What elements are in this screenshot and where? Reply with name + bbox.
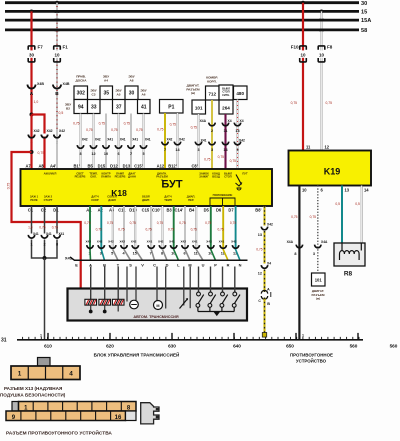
svg-text:0,5: 0,5 (59, 111, 64, 115)
reference box 101 (lower, engine connector) (312, 273, 326, 286)
node: junction bus 30 / F1 wire (55, 1, 59, 5)
wire: red X42-1 down to K18 pin A8 (43, 137, 45, 170)
svg-text:ДАНН: ДАНН (128, 175, 136, 179)
wire from reference box column to K18 (x=131) (130, 114, 132, 170)
svg-text:1,0: 1,0 (34, 100, 39, 104)
svg-text:А6: А6 (142, 92, 146, 96)
svg-text:B8': B8' (255, 207, 261, 212)
svg-text:94: 94 (78, 104, 84, 110)
svg-text:11: 11 (306, 145, 311, 150)
svg-text:30: 30 (361, 1, 367, 7)
svg-text:X42: X42 (59, 129, 65, 133)
connector X13 body (11, 366, 80, 380)
svg-text:X41: X41 (145, 138, 151, 142)
wire: black K19 pin10 to ground via X4A pin 8 (298, 186, 300, 340)
svg-text:0,75: 0,75 (256, 248, 262, 252)
wire from reference box column to K18 (x=118.5) (118, 114, 120, 170)
switch common bus (198, 311, 234, 313)
svg-text:X4A: X4A (200, 119, 207, 123)
svg-text:C: C (153, 262, 156, 267)
wire from reference box column to K18 (x=93.5) (93, 114, 95, 170)
svg-text:0,75: 0,75 (86, 128, 93, 132)
reference box 35 (100, 86, 113, 100)
connector X41 pin 3 (101 wire) (195, 142, 201, 145)
svg-text:A12: A12 (157, 163, 165, 168)
svg-text:ЛАМПА: ЛАМПА (101, 175, 111, 179)
svg-text:41: 41 (141, 104, 147, 110)
svg-text:X42: X42 (119, 239, 125, 243)
svg-text:X41: X41 (120, 138, 126, 142)
svg-text:ПОЛОЖЕНИЕ: ПОЛОЖЕНИЕ (213, 193, 233, 197)
speed sensor (variable) symbol (180, 299, 188, 309)
solenoid 1 ground stub (90, 305, 92, 311)
svg-text:5: 5 (142, 152, 144, 156)
solenoid 2 (shift valve) (99, 299, 111, 305)
svg-text:14: 14 (364, 187, 369, 192)
anti-theft connector bottom row (6, 411, 126, 421)
svg-text:ПОДУШКА БЕЗОПАСНОСТИ): ПОДУШКА БЕЗОПАСНОСТИ) (0, 392, 66, 397)
wire X43 to pump motor left terminal (126, 267, 128, 302)
svg-text:X42: X42 (34, 129, 40, 133)
svg-text:0,75: 0,75 (124, 122, 131, 126)
svg-text:B: B (55, 91, 58, 96)
svg-text:X42: X42 (85, 239, 91, 243)
connector X42 pin 8 (159, 245, 165, 248)
svg-text:C11: C11 (118, 207, 126, 212)
range switch contact 1 (197, 292, 201, 296)
svg-text:610: 610 (44, 343, 52, 348)
svg-text:30: 30 (129, 91, 135, 97)
wire: white-red from bus 30 to fuse F1 and connector X4B pin B (56, 3, 58, 134)
connector X42 pin 15 (132, 245, 138, 248)
svg-text:X41: X41 (219, 239, 225, 243)
svg-text:7: 7 (164, 148, 166, 152)
fuse F7 30A (28, 50, 35, 57)
svg-text:(м): (м) (191, 91, 195, 95)
svg-text:3: 3 (211, 148, 213, 152)
svg-text:РЕЗЕРВ: РЕЗЕРВ (115, 175, 126, 179)
svg-text:АККУМУЛ: АККУМУЛ (44, 171, 57, 175)
svg-text:А4: А4 (104, 78, 108, 82)
wire X43 to pump motor top (135, 267, 137, 301)
reference box 302 (74, 86, 88, 100)
svg-text:X42: X42 (180, 239, 186, 243)
svg-text:8: 8 (56, 242, 58, 246)
svg-text:3: 3 (197, 148, 199, 152)
svg-text:0,5: 0,5 (335, 202, 340, 206)
svg-text:X41: X41 (147, 239, 153, 243)
connector X4B pin A (28, 85, 36, 89)
svg-text:0,75: 0,75 (170, 123, 177, 127)
svg-text:F8: F8 (327, 45, 333, 50)
reference box 101 (upper) (192, 100, 206, 114)
wire tail into X43 slot (196, 250, 203, 261)
svg-text:8: 8 (161, 252, 163, 256)
svg-text:3: 3 (313, 252, 315, 256)
svg-text:0,75: 0,75 (145, 228, 151, 232)
wire: white P1 to K18 pin B12 (177, 113, 179, 169)
svg-text:ВОЗД: ВОЗД (212, 175, 220, 179)
svg-text:0,75: 0,75 (96, 228, 102, 232)
wire: red K18 bypass loop going left and down to transmission (12, 152, 116, 312)
svg-text:1,0: 1,0 (28, 225, 33, 229)
node: solenoid 1 to red bus (89, 310, 93, 314)
svg-text:13: 13 (235, 129, 239, 133)
svg-text:0,75: 0,75 (111, 128, 118, 132)
svg-text:10: 10 (300, 53, 306, 58)
ruler big ticks (47, 333, 49, 340)
svg-text:302: 302 (77, 91, 86, 97)
svg-text:D7: D7 (228, 207, 234, 212)
svg-text:А8: А8 (130, 78, 134, 82)
ground arrow inside transmission (213, 312, 220, 317)
mating plug silhouette (141, 403, 159, 424)
svg-text:D15: D15 (98, 163, 106, 168)
svg-text:K19: K19 (324, 167, 341, 177)
bus line 30 (5, 1, 359, 4)
wire: red branch to X42 pin 1 (32, 115, 45, 134)
wire tail into X43 slot (163, 250, 168, 261)
wire: red bus 30 through fuse F10 to K19 pin 11 (302, 3, 304, 151)
wire X43 to range switch 2 (210, 267, 212, 293)
svg-text:ПРОТИВОУГОННОЕ: ПРОТИВОУГОННОЕ (290, 352, 333, 357)
svg-text:0,75: 0,75 (230, 221, 236, 225)
connector X42 pin 3 (98, 245, 104, 248)
svg-text:11: 11 (223, 129, 227, 133)
svg-text:4: 4 (69, 371, 73, 378)
svg-text:58: 58 (361, 28, 367, 34)
svg-text:X4: X4 (267, 261, 271, 265)
svg-text:ЗАЖИГ: ЗАЖИГ (199, 175, 209, 179)
svg-text:X41: X41 (169, 239, 175, 243)
svg-text:0,75: 0,75 (130, 221, 136, 225)
svg-text:ТЕМП: ТЕМП (164, 198, 172, 202)
svg-text:X42: X42 (97, 239, 103, 243)
wire stub right of speed sensor (189, 267, 191, 309)
svg-text:X41: X41 (192, 239, 198, 243)
connector X42 pin 4 (28, 135, 34, 138)
range switch contact 4 (233, 292, 237, 296)
svg-text:12: 12 (258, 271, 262, 275)
svg-text:C15': C15' (134, 163, 143, 168)
svg-text:M: M (156, 304, 159, 308)
svg-text:X4: X4 (228, 119, 232, 123)
svg-text:СКОР: СКОР (91, 198, 99, 202)
pump motor circle (130, 300, 139, 309)
wire: merge of C1/C2/D1 to ground (32, 240, 58, 259)
svg-text:В2: В2 (66, 106, 70, 110)
svg-text:C2: C2 (41, 207, 47, 212)
control unit K19 (289, 151, 372, 186)
svg-text:10: 10 (302, 187, 307, 192)
svg-text:13: 13 (258, 233, 262, 237)
wire tail into X43 slot (223, 250, 228, 261)
svg-text:УСТРОЙСТВО: УСТРОЙСТВО (296, 358, 327, 363)
connector X42 pin 1 (87, 245, 93, 248)
svg-text:15: 15 (361, 10, 367, 16)
svg-text:F1: F1 (63, 45, 69, 50)
svg-text:712: 712 (208, 91, 216, 96)
svg-text:0,75: 0,75 (73, 122, 80, 126)
wire X43 to solenoid 1 (90, 267, 92, 300)
svg-text:S: S (129, 262, 132, 267)
reference box 712 (206, 86, 220, 100)
node: junction bus 15 / F7 wire (30, 10, 34, 14)
bus line patches (55, 10, 60, 13)
wire from reference box column to K18 (x=143.5) (143, 114, 145, 170)
wire: dotted K19 pin6 to engine connector 101 via X4A pin 3 (317, 186, 319, 274)
bus line 15 (5, 10, 359, 13)
svg-text:(м): (м) (316, 297, 320, 301)
svg-text:B: B (267, 302, 270, 306)
svg-text:0,75: 0,75 (6, 183, 10, 190)
svg-text:9: 9 (236, 148, 238, 152)
svg-text:6: 6 (117, 152, 119, 156)
svg-text:КОРП.: КОРП. (207, 79, 217, 83)
wire X43 to solenoid 2 (104, 267, 106, 300)
svg-text:ПУТ: ПУТ (242, 171, 248, 175)
svg-text:0,75: 0,75 (291, 215, 298, 219)
svg-text:X42: X42 (231, 239, 237, 243)
solenoid 2 ground stub (104, 305, 106, 311)
svg-text:2: 2 (211, 129, 213, 133)
svg-text:V: V (141, 262, 144, 267)
svg-text:N: N (239, 262, 242, 267)
svg-text:0,75: 0,75 (38, 151, 45, 155)
wire X43 to range switch 3 (222, 267, 224, 293)
reference box 33 (88, 100, 101, 114)
svg-text:B1': B1' (73, 163, 79, 168)
svg-text:0,75: 0,75 (118, 228, 124, 232)
svg-text:R8: R8 (344, 271, 353, 278)
svg-text:0,75: 0,75 (136, 128, 143, 132)
wire tail into X43 slot (135, 250, 142, 261)
svg-text:15A: 15A (361, 18, 371, 24)
node: red split junction (30, 113, 34, 117)
svg-text:X42: X42 (131, 239, 137, 243)
svg-text:R: R (227, 262, 230, 267)
svg-text:Р1: Р1 (168, 104, 174, 110)
svg-text:B3: B3 (166, 207, 172, 212)
svg-text:31: 31 (1, 337, 7, 343)
svg-text:0,75: 0,75 (310, 215, 317, 219)
svg-text:БУТ: БУТ (161, 179, 182, 191)
svg-text:1: 1 (40, 333, 42, 337)
svg-text:0,75: 0,75 (218, 155, 225, 159)
svg-text:12: 12 (91, 152, 95, 156)
svg-text:630: 630 (168, 343, 176, 348)
svg-text:ПЕР.: ПЕР. (188, 198, 194, 202)
svg-text:E: E (75, 262, 78, 267)
svg-text:A7: A7 (25, 163, 31, 168)
fuse F10 10A (300, 50, 307, 57)
svg-text:620: 620 (106, 343, 114, 348)
connector X42 pin 6 (182, 245, 188, 248)
reference box 30 (125, 86, 138, 100)
svg-text:X41: X41 (107, 138, 113, 142)
svg-text:F7: F7 (38, 45, 44, 50)
connector X41 pin 10 (171, 245, 177, 248)
wire: white 101 to K18 pin C8 (198, 114, 200, 169)
svg-text:D1: D1 (53, 207, 59, 212)
svg-text:РЕЗЕРВ: РЕЗЕРВ (75, 175, 86, 179)
svg-text:264: 264 (222, 105, 230, 110)
connector X42 pin 5 (110, 245, 116, 248)
svg-text:1: 1 (30, 242, 32, 246)
wire from reference box column to K18 (x=80.5) (80, 114, 82, 170)
automatic transmission unit box (68, 289, 248, 321)
svg-text:10: 10 (319, 53, 325, 58)
connector X41 pin 7 (148, 245, 154, 248)
svg-text:0,75: 0,75 (157, 128, 164, 132)
svg-text:С3: С3 (92, 92, 96, 96)
motor M circle (154, 301, 163, 310)
svg-text:D12: D12 (110, 163, 118, 168)
wire tail into X43 slot (89, 250, 92, 261)
svg-text:D6: D6 (216, 207, 222, 212)
svg-text:ДАВЛ: ДАВЛ (108, 198, 116, 202)
svg-text:0,75: 0,75 (52, 225, 58, 229)
svg-text:X4A: X4A (321, 240, 328, 244)
svg-text:ДВИГ.: ДВИГ. (142, 198, 150, 202)
svg-text:БЛОК УПРАВЛЕНИЯ ТРАНСМИССИЕЙ: БЛОК УПРАВЛЕНИЯ ТРАНСМИССИЕЙ (94, 350, 180, 357)
resistor R8 (heater coil) (334, 243, 365, 266)
connector X42 pin 2 (54, 135, 60, 138)
svg-text:ДОСКА: ДОСКА (76, 78, 88, 82)
svg-text:16: 16 (115, 415, 122, 421)
svg-text:101: 101 (195, 105, 203, 110)
svg-text:0,75: 0,75 (191, 126, 198, 130)
svg-text:640: 640 (233, 343, 241, 348)
wire stub right of motor M (165, 267, 167, 309)
range switch contact 2 (209, 292, 213, 296)
svg-text:13: 13 (345, 187, 350, 192)
svg-text:D5: D5 (204, 207, 210, 212)
wire X43 to speed sensor (183, 267, 185, 306)
reference box 41 (138, 100, 151, 114)
svg-text:8: 8 (79, 152, 81, 156)
connector X42 pin 12 (232, 245, 238, 248)
wire: ground drop to bus 31 (44, 258, 46, 340)
svg-text:C10': C10' (152, 207, 161, 212)
svg-text:560: 560 (390, 343, 398, 348)
svg-text:0,75: 0,75 (217, 228, 223, 232)
wire: purple 264 down to K18 (224, 114, 226, 169)
wire X43 to range switch 1 (198, 267, 200, 293)
wire: red X42-4 down to node and K18 pin A7 (30, 134, 32, 170)
solenoid 3 (shift valve) (112, 299, 124, 305)
node: junction bus 30 / F10 (301, 1, 305, 5)
svg-text:СИГН.: СИГН. (222, 93, 230, 97)
wire tail into X43 slot (151, 250, 154, 261)
svg-text:АВТОМ. ТРАНСМИССИЯ: АВТОМ. ТРАНСМИССИЯ (133, 315, 179, 319)
fuse F8 10A (318, 50, 325, 57)
svg-text:D13: D13 (123, 163, 131, 168)
wire tail into X43 slot (113, 250, 118, 261)
wire: red to X42 pin 4 (30, 115, 32, 134)
svg-text:X42: X42 (267, 222, 273, 226)
svg-text:СТОП: СТОП (224, 175, 232, 179)
wire tail into X43 slot (236, 250, 240, 261)
connector X42 pin 1 (41, 135, 47, 138)
svg-text:СТАРТ: СТАРТ (44, 198, 53, 202)
reference box 480 (234, 86, 248, 100)
svg-text:0,75: 0,75 (291, 101, 298, 105)
svg-text:8: 8 (294, 252, 296, 256)
svg-text:0,75: 0,75 (168, 228, 174, 232)
svg-text:B5: B5 (87, 163, 93, 168)
wire from reference box column to K18 (x=106) (105, 114, 107, 170)
svg-text:101: 101 (315, 278, 323, 283)
reference box 264 (219, 100, 233, 114)
wire tail into X43 slot (211, 250, 216, 261)
component box ВЫКЛ СТОП СИГН (219, 85, 233, 100)
wire: yellow 712 down to K18 (211, 100, 213, 169)
svg-text:РЕЛЕ: РЕЛЕ (30, 198, 37, 202)
svg-text:0,75: 0,75 (84, 221, 90, 225)
wire: white bus 15 through fuse F8 to K19 pin 12 (321, 11, 323, 150)
ruler small ticks (23, 337, 359, 340)
svg-text:РАЗЪЕМ X13 (НАДУВНАЯ: РАЗЪЕМ X13 (НАДУВНАЯ (4, 386, 62, 391)
svg-text:0,75: 0,75 (326, 101, 333, 105)
range switch contact 3 (221, 292, 225, 296)
svg-text:B12': B12' (168, 163, 177, 168)
svg-text:ОХЛ.: ОХЛ. (90, 175, 97, 179)
svg-text:X42: X42 (158, 239, 164, 243)
node: ground merge junction (43, 256, 47, 260)
reference box 94 (74, 100, 88, 114)
connector arcs overlay (28, 85, 36, 89)
K18 internal switch symbol (236, 175, 242, 185)
svg-text:6: 6 (183, 252, 185, 256)
solenoid 1 (shift valve) (85, 299, 97, 305)
svg-text:P: P (214, 262, 217, 267)
svg-text:35: 35 (103, 91, 109, 97)
svg-text:30: 30 (29, 53, 35, 58)
svg-text:А5: А5 (117, 92, 121, 96)
bus line 15A (5, 19, 359, 22)
svg-text:D10: D10 (129, 207, 137, 212)
svg-text:X4: X4 (240, 119, 244, 123)
connector X4B pin B (53, 85, 61, 89)
node: red tap to transmission feed (30, 150, 34, 154)
wire tail into X43 slot (185, 250, 190, 261)
svg-text:X4B: X4B (37, 82, 44, 86)
svg-text:0,75: 0,75 (107, 221, 113, 225)
svg-text:10: 10 (54, 53, 60, 58)
connector X42 pin 10 (208, 245, 214, 248)
reference box 37 (113, 100, 126, 114)
wire: yellow P1 to K18 pin A12 (164, 113, 166, 169)
solenoid 3 ground stub (117, 305, 119, 311)
svg-text:X42: X42 (167, 138, 173, 142)
wire X43 to motor M (156, 267, 158, 301)
svg-text:7: 7 (130, 152, 132, 156)
svg-text:A4': A4' (50, 163, 56, 168)
svg-text:560: 560 (350, 343, 358, 348)
node: solenoid 2 to red bus (103, 310, 107, 314)
svg-text:0,5: 0,5 (355, 202, 360, 206)
svg-text:33: 33 (91, 104, 97, 110)
svg-text:C1: C1 (28, 207, 34, 212)
svg-text:0,75: 0,75 (99, 122, 106, 126)
svg-text:X42: X42 (179, 138, 185, 142)
svg-text:X42: X42 (47, 129, 53, 133)
wire: white 480 down to K18 (237, 100, 239, 170)
svg-text:X42: X42 (108, 239, 114, 243)
svg-text:X42: X42 (206, 239, 212, 243)
wire X43 to range switch 4 (234, 267, 236, 293)
